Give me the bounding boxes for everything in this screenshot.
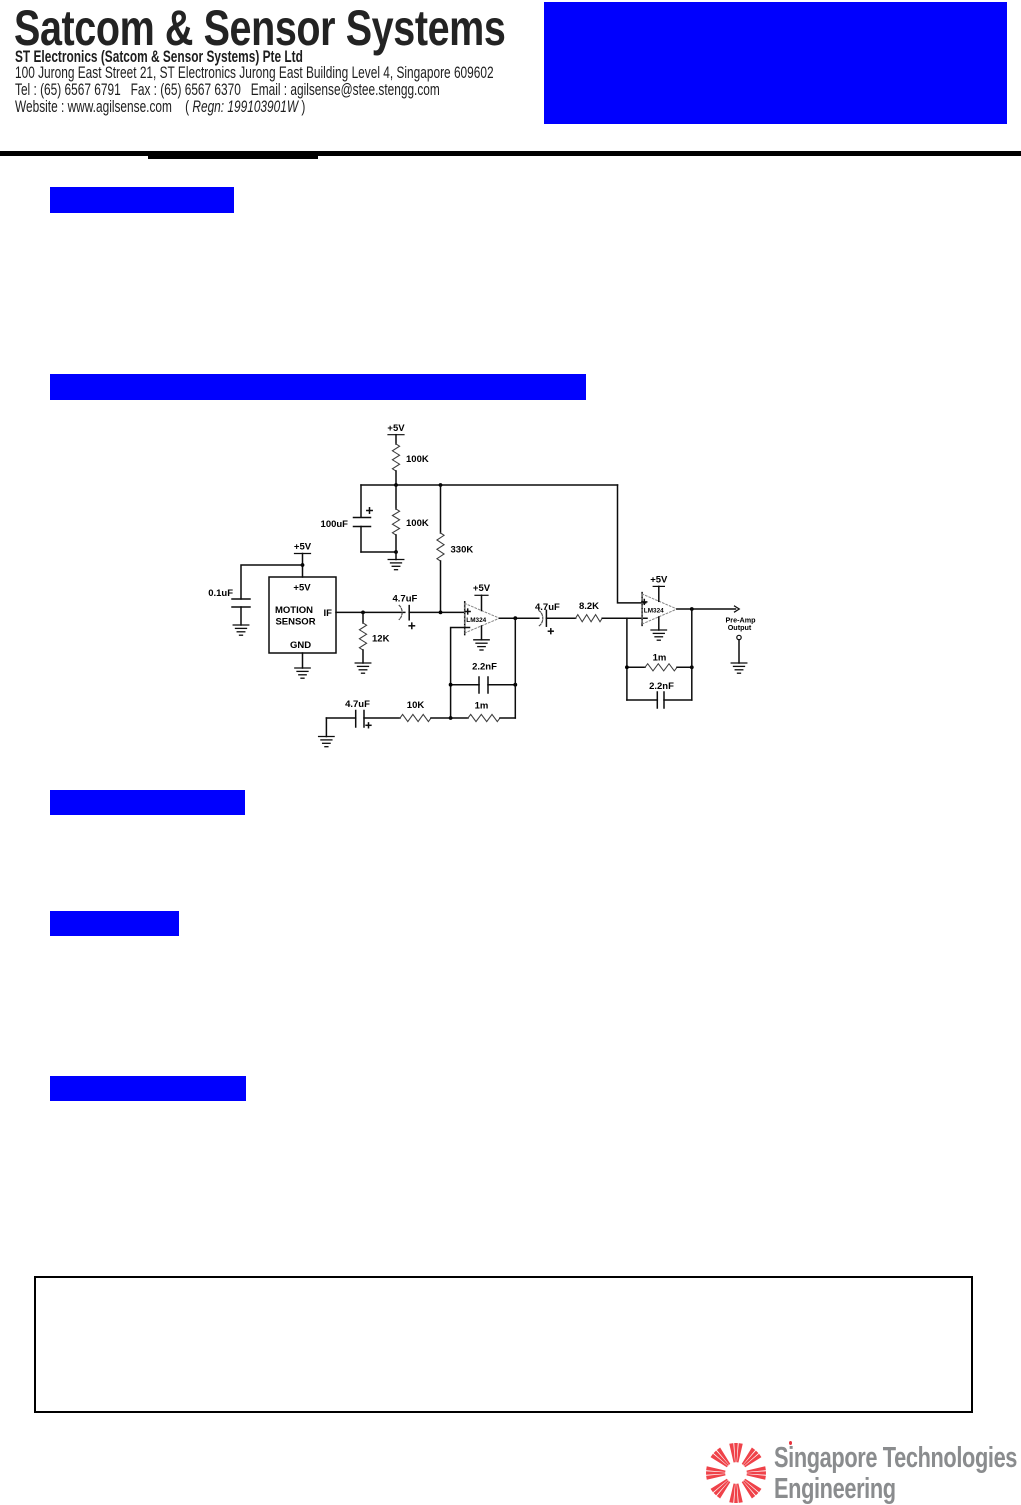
terminal circle <box>737 635 741 639</box>
label 12K <box>372 634 390 645</box>
label 0.1uF <box>208 588 233 599</box>
resistor R 100K (upper) <box>392 444 399 471</box>
ground (op-amp1) <box>474 640 489 650</box>
wire rail to op-amp2 +input <box>618 485 646 603</box>
header address block <box>15 49 519 116</box>
blue header rectangle top right <box>544 2 1007 124</box>
node op-amp2 output junction <box>690 607 694 611</box>
svg-text:2.2nF: 2.2nF <box>649 681 674 692</box>
ground (0.1uF) <box>233 625 249 635</box>
node 10K junction <box>449 716 453 720</box>
resistor R 1m (first) <box>451 618 516 721</box>
blue bar 4 <box>50 911 179 936</box>
wire IF output <box>336 611 405 613</box>
label 4.7uF (interstage) <box>535 602 560 613</box>
label 4.7uF (input) <box>393 594 418 605</box>
Singapore Technologies Engineering logo <box>703 1440 770 1503</box>
svg-text:IF: IF <box>324 608 333 619</box>
svg-text:4.7uF: 4.7uF <box>345 699 370 710</box>
svg-text:1m: 1m <box>475 701 489 712</box>
node bias-R junction <box>394 483 398 487</box>
label 2.2nF (first) <box>472 662 497 673</box>
label 100K (lower) <box>406 518 429 529</box>
label 10K <box>407 700 425 711</box>
node 1m left junction <box>625 665 629 669</box>
label +5V pin <box>293 583 311 594</box>
wire op-amp1 gnd <box>481 626 483 640</box>
wire op-amp2 output <box>677 608 736 610</box>
svg-text:GND: GND <box>290 640 311 651</box>
capacitor C 0.1uF <box>232 599 250 625</box>
wire bias rail horizontal <box>361 484 618 486</box>
label 1m (first) <box>475 701 489 712</box>
wire 100uF to 100K bottom <box>361 551 396 553</box>
power +5V (sensor) <box>294 542 312 578</box>
outlined footer rectangle <box>34 1276 973 1413</box>
capacitor C 4.7uF (feedback) <box>326 711 400 728</box>
plus mark 4.7uF feedback <box>366 723 371 728</box>
svg-text:+5V: +5V <box>387 423 405 434</box>
node 330K signal junction <box>439 611 443 615</box>
wire op-amp1 inverting stub <box>451 628 470 719</box>
capacitor C 4.7uF (input) <box>399 605 465 619</box>
svg-text:+5V: +5V <box>650 575 668 586</box>
resistor R 100K (lower) <box>392 485 399 552</box>
wire 4.7uF to ground <box>325 718 327 737</box>
wire op-amp2 feedback left <box>626 618 628 700</box>
svg-text:1m: 1m <box>653 653 667 664</box>
power +5V rail (top) <box>387 423 405 444</box>
svg-text:LM324: LM324 <box>466 617 486 624</box>
ground (4.7uF feedback) <box>319 737 335 747</box>
plus mark op-amp2 input <box>642 600 647 605</box>
svg-text:8.2K: 8.2K <box>579 601 599 612</box>
resistor R 12K <box>359 612 366 663</box>
capacitor C 4.7uF (interstage) <box>539 610 576 626</box>
svg-text:12K: 12K <box>372 634 390 645</box>
node feedback left junction <box>449 683 453 687</box>
motion sensor box U MOTION SENSOR <box>269 577 336 653</box>
wire rail left leg <box>360 485 362 517</box>
svg-text:+5V: +5V <box>293 583 311 594</box>
svg-text:330K: 330K <box>451 545 474 556</box>
capacitor C 2.2nF (second) <box>627 692 692 708</box>
node feedback right junction <box>513 683 517 687</box>
ground (bias network) <box>388 560 404 570</box>
wire sensor gnd <box>302 653 304 668</box>
svg-text:2.2nF: 2.2nF <box>472 662 497 673</box>
label 4.7uF (feedback) <box>345 699 370 710</box>
svg-text:10K: 10K <box>407 700 425 711</box>
wire op-amp2 gnd <box>658 617 660 630</box>
label SENSOR <box>275 617 315 628</box>
resistor R 8.2K <box>576 615 647 622</box>
label 8.2K <box>579 601 599 612</box>
svg-text:4.7uF: 4.7uF <box>535 602 560 613</box>
resistor R 10K <box>400 714 451 721</box>
label IF pin <box>324 608 333 619</box>
power +5V (op-amp1) <box>473 583 491 611</box>
plus mark 100uF <box>367 508 372 513</box>
label GND pin <box>290 640 311 651</box>
resistor R 1m (second) <box>627 664 692 671</box>
label 330K <box>451 545 474 556</box>
svg-text:0.1uF: 0.1uF <box>208 588 233 599</box>
label 100K (upper) <box>406 454 429 465</box>
op-amp U LM324 (second) <box>642 593 677 626</box>
wire op-amp2 feedback right <box>691 609 693 700</box>
plus mark 4.7uF interstage <box>548 629 553 634</box>
label 100uF <box>321 519 349 530</box>
label LM324 (first) <box>466 617 486 624</box>
wire op-amp1 output <box>500 617 539 619</box>
wire supply to 0.1uF <box>241 565 303 599</box>
svg-text:+5V: +5V <box>294 542 312 553</box>
node IF junction <box>361 611 365 615</box>
label 2.2nF (second) <box>649 681 674 692</box>
node 330K junction <box>439 483 443 487</box>
svg-text:100K: 100K <box>406 518 429 529</box>
arrow output <box>735 606 740 612</box>
plus mark 4.7uF input <box>409 623 414 628</box>
blue bar 1 <box>50 187 234 213</box>
header title <box>14 0 534 57</box>
blue bar 2 (above schematic) <box>50 374 586 400</box>
node op-amp1 output junction <box>513 616 517 620</box>
ground (op-amp2) <box>651 630 667 640</box>
svg-text:LM324: LM324 <box>644 608 664 615</box>
svg-text:+5V: +5V <box>473 583 491 594</box>
node 1m right junction <box>690 665 694 669</box>
node sensor supply junction <box>301 563 305 567</box>
ground (sensor) <box>295 668 310 678</box>
op-amp U LM324 (first) <box>465 602 500 635</box>
label 1m (second) <box>653 653 667 664</box>
ground (output) <box>731 663 747 673</box>
ground (12K) <box>355 663 371 673</box>
wire 100K to bias rail <box>395 471 397 485</box>
wire terminal to ground <box>738 640 740 663</box>
svg-text:4.7uF: 4.7uF <box>393 594 418 605</box>
plus mark op-amp1 input <box>465 609 470 614</box>
node 100K-100uF junction <box>394 550 398 554</box>
svg-text:MOTION: MOTION <box>275 605 313 616</box>
capacitor C 2.2nF (first) <box>451 677 516 693</box>
blue bar 3 <box>50 790 245 815</box>
blue bar 5 <box>50 1076 246 1101</box>
resistor R 330K <box>437 485 444 612</box>
capacitor C 100uF <box>354 518 371 553</box>
label Pre-Amp Output <box>726 616 757 633</box>
svg-text:100uF: 100uF <box>321 519 349 530</box>
full-width black rule <box>0 151 1021 156</box>
wire to ground (bias) <box>395 552 397 560</box>
svg-text:Output: Output <box>728 623 752 632</box>
power +5V (op-amp2) <box>650 575 668 602</box>
label LM324 (second) <box>644 608 664 615</box>
short thicker rule segment <box>148 153 318 159</box>
svg-text:SENSOR: SENSOR <box>275 617 315 628</box>
label MOTION <box>275 605 313 616</box>
svg-text:100K: 100K <box>406 454 429 465</box>
